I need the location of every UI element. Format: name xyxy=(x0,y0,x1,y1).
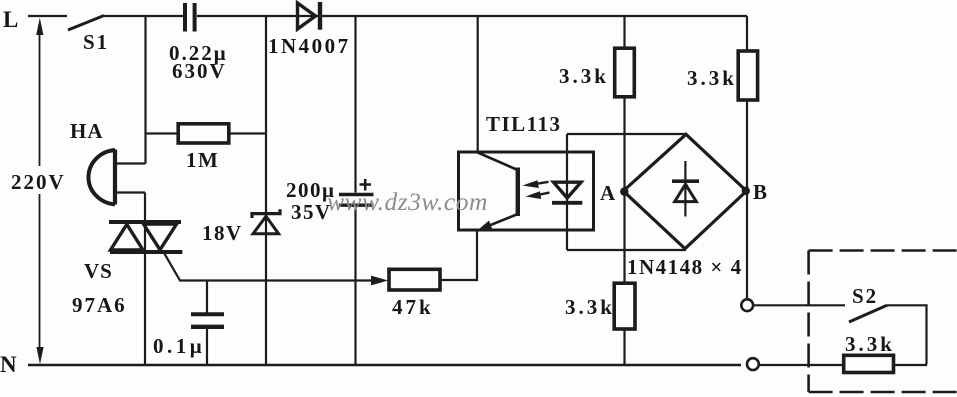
svg-text:3.3k: 3.3k xyxy=(565,295,615,319)
svg-text:S1: S1 xyxy=(83,30,109,54)
svg-text:1M: 1M xyxy=(186,148,219,172)
svg-text:S2: S2 xyxy=(852,284,878,308)
svg-text:1N4007: 1N4007 xyxy=(268,34,351,58)
svg-text:3.3k: 3.3k xyxy=(687,66,737,90)
svg-text:97A6: 97A6 xyxy=(72,293,127,317)
svg-text:HA: HA xyxy=(70,119,104,143)
svg-text:TIL113: TIL113 xyxy=(486,112,562,136)
svg-text:47k: 47k xyxy=(392,295,434,319)
svg-text:www.dz3w.com: www.dz3w.com xyxy=(327,187,488,216)
svg-text:18V: 18V xyxy=(202,221,243,245)
svg-text:B: B xyxy=(753,180,767,204)
svg-text:VS: VS xyxy=(84,259,113,283)
svg-text:1N4148 × 4: 1N4148 × 4 xyxy=(627,255,743,279)
svg-text:A: A xyxy=(600,181,616,205)
svg-text:630V: 630V xyxy=(172,59,227,83)
svg-text:L: L xyxy=(3,7,20,32)
svg-text:0.1μ: 0.1μ xyxy=(153,334,205,358)
svg-text:220V: 220V xyxy=(11,170,66,194)
svg-text:N: N xyxy=(0,352,19,377)
svg-text:3.3k: 3.3k xyxy=(845,332,895,356)
svg-text:35V: 35V xyxy=(291,200,332,224)
svg-text:3.3k: 3.3k xyxy=(559,64,609,88)
